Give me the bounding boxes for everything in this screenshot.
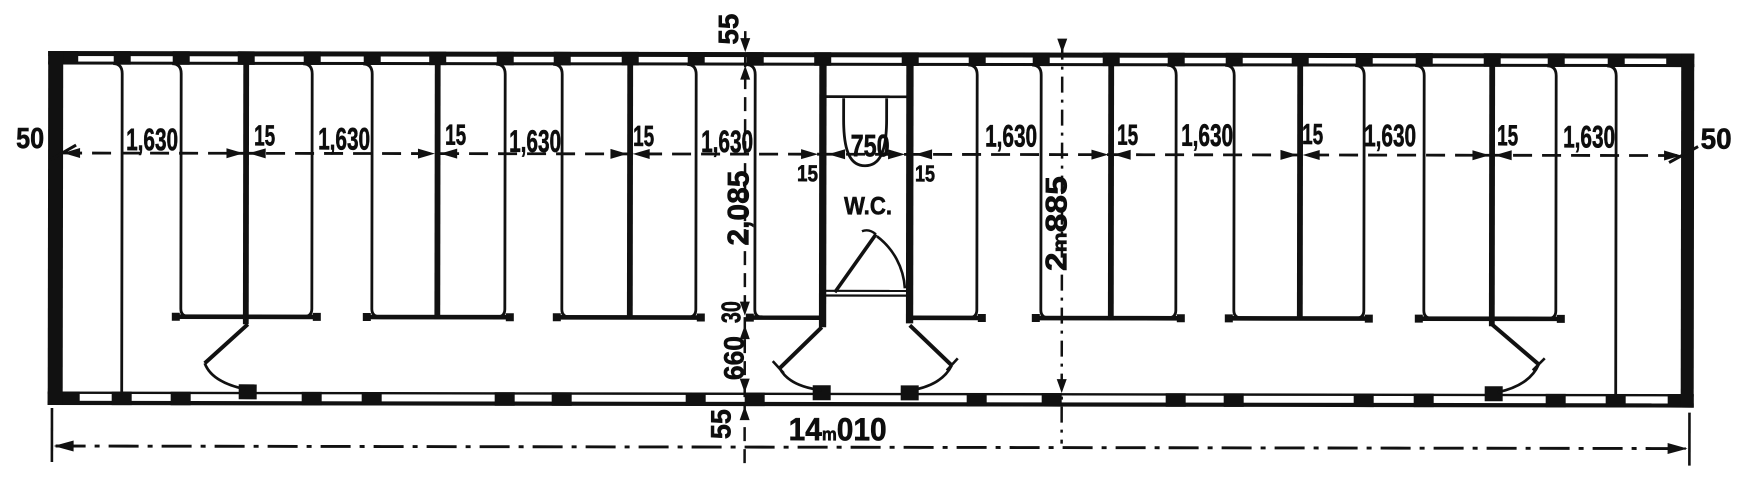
svg-text:15: 15 [254,120,275,152]
cell 1 front wall [177,314,316,319]
cell 6 front wall [1420,316,1560,321]
overall length dimension line (14m010) [56,446,1686,449]
cell 1 right side wall line [303,64,312,317]
cell 2 front wall [368,315,509,320]
wall slash tick left [50,145,76,160]
svg-text:15: 15 [633,121,654,153]
svg-text:1,630: 1,630 [1563,119,1615,154]
cell 4 (left of W.C.) side wall line [746,65,764,318]
entrance left leaf end tick [773,361,784,373]
cell 2 front wall end blobs [363,313,371,321]
W.C. lintel line [826,95,907,98]
svg-text:15: 15 [1497,120,1518,152]
cell 6 left side wall line [1415,66,1433,319]
right outer wall [1681,54,1695,408]
svg-text:1,630: 1,630 [1181,118,1233,153]
cell 5 front wall end blobs [1225,314,1233,322]
cell 1 left side wall line [172,64,190,317]
svg-text:W.C.: W.C. [844,192,892,220]
cell 3 front wall end blobs [553,313,561,321]
main horizontal dimension line [63,153,1681,156]
cell 6 front wall end blobs [1415,315,1423,323]
overall height arrows [1057,39,1067,53]
full-height partition line 1 [113,64,123,394]
svg-text:30: 30 [716,301,746,323]
partition wall at x=246 [243,64,249,325]
cell 3 right side wall line [687,65,696,318]
wall slash tick right [1669,147,1698,163]
cell 4 left side wall line [1032,65,1050,318]
toilet bowl [844,98,887,166]
cell 5 left side wall line [1225,65,1243,318]
svg-text:15: 15 [915,160,935,186]
cell 4 front wall end blobs [1032,314,1040,322]
partition wall at x=437.5 [434,64,440,319]
overall length arrows [54,441,74,452]
bottom wall window posts [112,392,132,406]
cell 5 front wall [1230,316,1368,321]
svg-text:15: 15 [797,160,818,186]
outer wall top band outline [48,51,1694,59]
partition wall at x=1492 [1489,66,1495,327]
W.C. threshold lines [826,290,907,292]
svg-text:50: 50 [16,123,44,155]
entrance double door left leaf [780,327,822,368]
cell 3 front wall [558,315,700,320]
svg-text:14m010: 14m010 [789,411,887,447]
svg-text:1,630: 1,630 [701,124,753,159]
full-height partition line 2 [1607,66,1617,396]
top wall window piers [114,51,131,65]
cubicle door leaf left (at partition 246) [205,324,248,363]
partition wall at x=1111 [1108,65,1114,320]
top wall corner blocks [48,51,78,65]
cell 2 right side wall line [496,64,505,317]
svg-text:15: 15 [445,120,466,152]
svg-text:15: 15 [1302,119,1323,151]
svg-text:55: 55 [713,14,744,45]
cell 4 front wall end blob [746,314,754,322]
partition wall at x=630 [627,64,633,319]
W.C. right wall [906,65,914,324]
svg-text:1,630: 1,630 [985,118,1037,153]
entrance right leaf end tick [947,358,958,370]
vertical dimension chain line (55/2,085/30/660/55) [743,31,746,463]
cubicle door swing arc left [205,363,246,389]
bottom wall door stop blobs [239,384,257,399]
overall length end ticks [51,408,54,462]
svg-text:15: 15 [1117,120,1138,152]
outer wall bottom band outline [48,391,1694,396]
svg-text:1,630: 1,630 [509,124,561,159]
svg-text:1,630: 1,630 [1364,118,1416,153]
svg-text:50: 50 [1701,124,1732,156]
cell 4 right side wall line [1167,65,1176,318]
entrance right door swing arc [911,365,952,390]
svg-text:2m885: 2m885 [1040,176,1073,271]
vertical chain arrows [740,38,750,52]
cell 2 left side wall line [363,64,381,317]
cell 1 front wall end blobs [172,313,180,321]
partition wall at x=1300 [1297,65,1303,320]
cell 5 right side wall line [1355,66,1364,319]
svg-text:1,630: 1,630 [126,122,178,157]
left outer wall [48,51,64,405]
cell 5 front wall end blob [978,314,986,322]
entrance double door right leaf [910,325,952,365]
W.C. door swing arc [877,236,905,288]
svg-text:2,085: 2,085 [722,171,755,246]
cubicle door end tick right [1533,358,1545,370]
cell 4 front wall [1037,316,1180,321]
W.C. door leaf [835,234,876,292]
overall height dimension line (2m885) [1060,44,1063,444]
svg-text:1,630: 1,630 [318,121,370,156]
bottom wall corner blocks [48,391,80,405]
W.C. left wall [819,65,827,328]
entrance left door swing arc [780,368,822,390]
cell 6 right side wall line [1547,66,1556,319]
cubicle door swing arc right [1498,364,1539,392]
cell 5 front wall [913,316,981,321]
cell 4 front wall [751,315,820,320]
svg-text:660: 660 [719,336,750,380]
svg-text:55: 55 [705,409,736,439]
cell 3 left side wall line [553,64,571,317]
cell 5 (right of W.C.) side wall line [968,65,977,318]
svg-text:750: 750 [851,128,890,163]
dimension arrows on main line [63,148,80,158]
cubicle door leaf right (at partition 1492) [1492,324,1539,364]
